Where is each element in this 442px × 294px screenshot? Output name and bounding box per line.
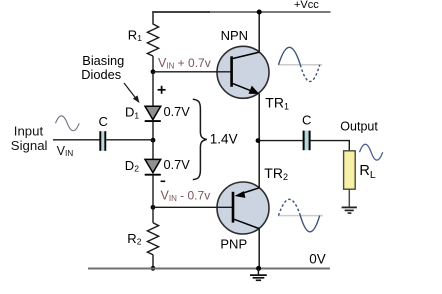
node A (Vin+0.7): [151, 69, 156, 74]
svg-text:Input: Input: [14, 123, 44, 138]
wire: output node to PNP emitter: [258, 141, 260, 188]
resistor R2: [147, 223, 158, 255]
PNP emitter line with arrow (top): [240, 188, 259, 194]
output node: [256, 138, 261, 143]
svg-text:D2: D2: [125, 158, 139, 174]
minus sign below D2: [161, 180, 166, 182]
ground below 0V rail: [257, 269, 259, 275]
svg-text:Diodes: Diodes: [81, 67, 121, 82]
svg-text:TR2: TR2: [264, 165, 288, 182]
svg-text:D1: D1: [125, 105, 139, 121]
transistor TR2 (PNP) body: [217, 182, 269, 234]
wire: input to capacitor C: [53, 139, 100, 141]
wire: capacitor to input node: [106, 139, 153, 141]
wire: input node to D2: [152, 140, 154, 160]
wire: R1 to node A: [152, 56, 154, 72]
wire: R2 to 0V rail: [152, 255, 154, 269]
svg-text:Biasing: Biasing: [82, 53, 124, 68]
node on top rail: [257, 10, 262, 15]
NPN emitter line with arrow: [233, 84, 255, 93]
wire: output node to capacitor C: [259, 140, 302, 142]
svg-text:0V: 0V: [309, 252, 326, 267]
capacitor C (output): [304, 131, 308, 151]
diode D1: [145, 106, 161, 119]
NPN base bar: [230, 56, 233, 87]
output sine at load: [360, 144, 383, 160]
wire: D2 to node B: [152, 175, 154, 208]
PNP output sine dashed half: [279, 199, 301, 215]
ground below RL: [342, 206, 357, 208]
resistor RL (load): [344, 151, 356, 189]
wire: top rail corner down to R1: [152, 11, 154, 24]
svg-text:PNP: PNP: [220, 237, 247, 252]
svg-text:VIN + 0.7v: VIN + 0.7v: [158, 56, 211, 70]
NPN output sine solid half: [279, 47, 301, 65]
wire: NPN emitter to output node: [258, 94, 260, 141]
plus sign above D1: [158, 89, 166, 91]
svg-text:R1: R1: [128, 28, 142, 44]
PNP base bar: [232, 192, 235, 223]
NPN collector line: [233, 52, 259, 58]
NPN output sine axis: [278, 64, 322, 66]
PNP output sine axis: [278, 215, 323, 217]
input sine wave: [56, 116, 80, 131]
wire: node A down to D1: [152, 72, 154, 107]
svg-text:Output: Output: [340, 119, 378, 133]
arrow to biasing diodes: [124, 83, 137, 100]
svg-text:VIN - 0.7v: VIN - 0.7v: [161, 189, 211, 203]
wire: RL to ground: [348, 189, 350, 207]
wire: capacitor to output corner: [310, 140, 349, 142]
svg-text:0.7V: 0.7V: [164, 157, 191, 172]
NPN output sine dashed half: [300, 65, 319, 82]
wire: D1 to input node: [152, 121, 154, 140]
svg-text:VIN: VIN: [57, 144, 74, 158]
PNP collector line (bottom): [234, 219, 259, 228]
svg-text:C: C: [99, 114, 108, 129]
0V rail: [88, 268, 330, 270]
wire: corner down to RL: [348, 140, 350, 151]
svg-text:+Vcc: +Vcc: [294, 0, 319, 11]
+Vcc rail (top supply wire): [152, 11, 210, 13]
svg-text:C: C: [302, 112, 311, 127]
svg-text:TR1: TR1: [265, 95, 289, 112]
node on 0V rail at R2: [151, 266, 156, 271]
wire: top rail to NPN collector: [258, 12, 260, 53]
node B (Vin-0.7): [151, 205, 156, 210]
capacitor C (input): [101, 131, 104, 151]
svg-text:Signal: Signal: [11, 138, 48, 153]
input node: [151, 138, 156, 143]
svg-text:NPN: NPN: [221, 28, 248, 43]
wire: PNP collector to 0V rail: [258, 228, 260, 268]
node on 0V rail at PNP: [256, 266, 261, 271]
wire: node B to PNP base: [153, 206, 232, 208]
svg-text:0.7V: 0.7V: [164, 104, 191, 119]
wire: node B down to R2: [152, 207, 154, 223]
diode D2: [145, 159, 161, 172]
resistor R1: [147, 24, 158, 56]
wire: node A to NPN base: [153, 71, 231, 73]
transistor TR1 (NPN) body: [217, 46, 269, 98]
svg-text:RL: RL: [359, 163, 375, 181]
svg-text:R2: R2: [127, 231, 141, 247]
brace 1.4V: [193, 99, 207, 179]
PNP output sine solid half: [300, 216, 319, 232]
svg-text:1.4V: 1.4V: [210, 131, 238, 146]
